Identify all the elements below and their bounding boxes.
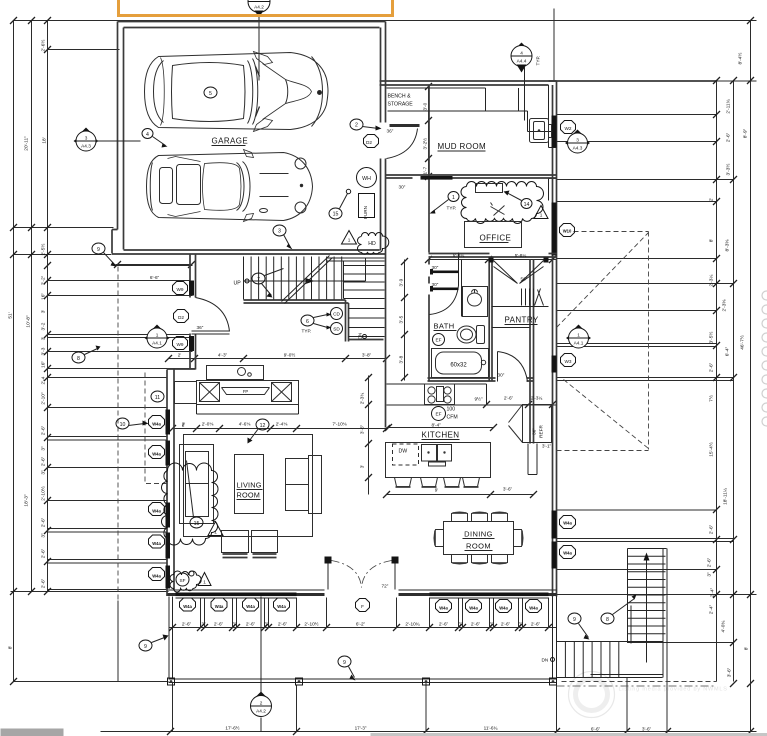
keynote circle 4 with leader bbox=[142, 129, 153, 139]
svg-text:1: 1 bbox=[214, 530, 217, 535]
west extension lines from rail to wall bbox=[14, 255, 196, 590]
svg-text:SD: SD bbox=[333, 327, 340, 332]
upper stair DN-run treads bbox=[344, 262, 385, 299]
dim rail x=428 mud room bbox=[428, 85, 430, 179]
window W10 black bar east wall bbox=[552, 203, 557, 256]
section callout diamond 4/A4.4 with TYP bbox=[511, 43, 532, 73]
svg-text:2'-10½: 2'-10½ bbox=[304, 621, 318, 627]
stair break diagonal bbox=[282, 256, 333, 304]
pocket door 30in upper bbox=[433, 271, 459, 274]
section line bottom x=260 bbox=[260, 597, 262, 732]
car 2 garage bottom (coupe plan view) bbox=[147, 150, 313, 222]
bath west wall segments with pocket door gaps bbox=[428, 260, 430, 381]
svg-text:SF: SF bbox=[180, 578, 186, 583]
keynote circle 15 living bbox=[190, 517, 203, 528]
dim line y=494 island bbox=[387, 494, 534, 496]
svg-text:2'-6”: 2'-6” bbox=[41, 578, 47, 588]
svg-text:W9: W9 bbox=[176, 342, 183, 347]
svg-text:56”: 56” bbox=[521, 277, 528, 282]
svg-text:2'-6”: 2'-6” bbox=[726, 132, 732, 142]
svg-text:2'-3¼: 2'-3¼ bbox=[709, 274, 715, 287]
upper stair DN-run top lines bbox=[327, 258, 385, 261]
svg-text:2': 2' bbox=[182, 423, 186, 428]
svg-text:A4.1: A4.1 bbox=[574, 341, 584, 346]
svg-text:TYP.: TYP. bbox=[302, 329, 312, 334]
svg-text:3'-8: 3'-8 bbox=[399, 355, 404, 363]
svg-text:3”: 3” bbox=[707, 572, 713, 577]
svg-text:A4.2: A4.2 bbox=[256, 709, 266, 714]
svg-text:DN: DN bbox=[542, 658, 549, 663]
svg-text:4: 4 bbox=[146, 132, 149, 138]
svg-text:8'-4”: 8'-4” bbox=[432, 423, 442, 428]
svg-text:51': 51' bbox=[8, 312, 14, 318]
keynote circle 9 upper-left with leader bbox=[92, 243, 105, 254]
svg-text:3”: 3” bbox=[489, 622, 494, 627]
svg-text:2'-6”: 2'-6” bbox=[709, 362, 715, 372]
svg-text:2'-10½: 2'-10½ bbox=[40, 486, 47, 501]
east stair treads vertical run bbox=[628, 556, 666, 633]
svg-text:Listing media provided by NWML: Listing media provided by NWMLS bbox=[619, 687, 728, 693]
water heater WH circle bbox=[357, 168, 377, 188]
bath hall door arc bbox=[430, 253, 459, 315]
svg-text:FP: FP bbox=[243, 389, 249, 394]
svg-text:12: 12 bbox=[260, 423, 266, 429]
dim line y=428 living north bbox=[173, 428, 387, 430]
svg-text:2'-6”: 2'-6” bbox=[707, 557, 713, 567]
svg-text:1: 1 bbox=[203, 580, 206, 585]
west wall jog at y=368 bbox=[167, 368, 196, 370]
svg-text:15: 15 bbox=[333, 212, 339, 218]
svg-text:36”: 36” bbox=[532, 428, 537, 435]
svg-text:UP: UP bbox=[234, 281, 242, 287]
svg-text:EF: EF bbox=[436, 338, 442, 343]
svg-text:2: 2 bbox=[260, 701, 263, 706]
coffee table bbox=[235, 455, 264, 514]
svg-text:W4a: W4a bbox=[152, 509, 161, 514]
svg-text:W10: W10 bbox=[563, 229, 572, 234]
french door leaves and swing arcs bbox=[328, 564, 395, 590]
keynote circle 6 TYP with CD SD bbox=[301, 315, 314, 326]
svg-text:36”: 36” bbox=[387, 129, 394, 134]
svg-text:3': 3' bbox=[360, 465, 365, 469]
svg-text:GARAGE: GARAGE bbox=[212, 137, 249, 146]
svg-text:7½: 7½ bbox=[708, 395, 715, 402]
office revision cloud bbox=[461, 182, 544, 224]
garage walls bbox=[112, 22, 386, 428]
keynote circle 3 garage with leader arrow bbox=[273, 225, 286, 236]
svg-text:9: 9 bbox=[144, 644, 147, 650]
keynote circle 9 deck with leader bbox=[338, 656, 351, 667]
svg-text:1'-7: 1'-7 bbox=[423, 166, 428, 174]
stair risers main up-run bbox=[244, 257, 342, 300]
svg-text:2'-11¾: 2'-11¾ bbox=[726, 98, 732, 113]
svg-text:9: 9 bbox=[97, 247, 100, 253]
HD cloud garage bbox=[358, 233, 389, 255]
pantry coat rod and hangers bbox=[492, 289, 549, 307]
svg-text:A4.3: A4.3 bbox=[81, 144, 91, 149]
svg-text:DN: DN bbox=[358, 333, 363, 340]
stair handrail line with UP arrow bbox=[244, 259, 366, 282]
svg-text:60x32: 60x32 bbox=[450, 363, 467, 369]
svg-text:W4a: W4a bbox=[563, 551, 572, 556]
svg-text:46'-7½: 46'-7½ bbox=[739, 335, 746, 350]
office south wall / bath north wall bbox=[429, 254, 557, 258]
dash-dot deck line bottom right bbox=[557, 685, 717, 687]
svg-text:3'-8”: 3'-8” bbox=[362, 353, 372, 358]
svg-text:BENCH &: BENCH & bbox=[388, 94, 412, 100]
right edge watermark circles bbox=[762, 291, 767, 426]
svg-text:5'-8¼: 5'-8¼ bbox=[515, 253, 527, 258]
svg-text:10'-8”: 10'-8” bbox=[26, 315, 32, 328]
kitchen EF circle 100 CFM bbox=[432, 407, 446, 421]
svg-text:PANTRY: PANTRY bbox=[505, 316, 539, 325]
svg-text:2'-2”: 2'-2” bbox=[41, 275, 47, 285]
dining chair left bbox=[434, 530, 444, 547]
window hexagons W4a east bbox=[560, 516, 576, 529]
svg-text:2'-6”: 2'-6” bbox=[439, 622, 449, 627]
top dimension line y=20 bbox=[14, 20, 757, 22]
A4.4 leader line down bbox=[524, 67, 526, 121]
bottom gray bars bbox=[1, 729, 64, 736]
svg-text:3”: 3” bbox=[264, 622, 269, 627]
svg-text:W9: W9 bbox=[176, 287, 183, 292]
deck east edge under house bbox=[553, 597, 557, 679]
svg-text:STORAGE: STORAGE bbox=[388, 102, 414, 108]
svg-text:ROOM: ROOM bbox=[237, 491, 261, 500]
svg-text:LIVING: LIVING bbox=[237, 481, 262, 490]
svg-text:3'-3½: 3'-3½ bbox=[725, 164, 732, 176]
window W2 black bar east wall bbox=[552, 116, 557, 148]
dim rail x=368 kitchen west bbox=[368, 376, 370, 495]
keynote circle 12 with leader bbox=[256, 419, 269, 430]
section callout diamond 1/A4.1 east bbox=[566, 325, 591, 349]
dim line y=681 bottom-left to deck bbox=[14, 681, 169, 683]
svg-text:MUD ROOM: MUD ROOM bbox=[438, 142, 487, 151]
keynote circle 10 with leader bbox=[116, 418, 129, 429]
island bar stools bbox=[395, 478, 412, 487]
svg-text:2'-6”: 2'-6” bbox=[41, 517, 47, 527]
svg-text:3'-2: 3'-2 bbox=[41, 322, 47, 330]
door hexagon D2 mud room bbox=[364, 135, 379, 148]
svg-text:2'-3⅝: 2'-3⅝ bbox=[722, 299, 728, 312]
svg-text:6'-2”: 6'-2” bbox=[356, 622, 366, 627]
east stair up arrow bbox=[646, 557, 648, 635]
broom cabinet beside refrigerator bbox=[528, 444, 537, 475]
svg-text:3”: 3” bbox=[458, 622, 463, 627]
svg-text:2': 2' bbox=[709, 198, 715, 202]
svg-text:15: 15 bbox=[194, 521, 200, 527]
svg-text:DINING: DINING bbox=[464, 530, 493, 539]
SF cloud with triangle bottom-left bbox=[170, 571, 201, 592]
svg-text:3': 3' bbox=[41, 337, 47, 341]
svg-text:ROOM: ROOM bbox=[466, 542, 491, 551]
watermark faint circle bbox=[569, 672, 615, 718]
svg-text:2': 2' bbox=[178, 353, 182, 358]
revision triangle 1 garage bbox=[342, 231, 357, 245]
svg-text:A4.4: A4.4 bbox=[517, 59, 527, 64]
west wall living room x=166-173 bbox=[167, 370, 174, 597]
svg-text:17'-6½: 17'-6½ bbox=[225, 725, 239, 731]
window hexagon W9 lower bbox=[173, 337, 188, 350]
svg-text:W4a: W4a bbox=[183, 604, 192, 609]
dimension rail left inner x=47 bbox=[47, 21, 49, 592]
svg-text:3”: 3” bbox=[232, 622, 237, 627]
svg-text:30”: 30” bbox=[432, 265, 439, 270]
area rug bbox=[184, 435, 313, 537]
svg-text:3'-3: 3'-3 bbox=[41, 347, 47, 355]
deck posts bbox=[168, 678, 175, 685]
svg-text:3”: 3” bbox=[41, 470, 47, 475]
svg-text:2'-4”: 2'-4” bbox=[710, 587, 716, 597]
svg-text:3'-6”: 3'-6” bbox=[360, 424, 365, 434]
svg-text:3'-6”: 3'-6” bbox=[727, 667, 733, 677]
mud room door from garage 36in with arc bbox=[387, 129, 418, 159]
svg-text:D2: D2 bbox=[178, 315, 184, 320]
svg-text:4'-0¾: 4'-0¾ bbox=[721, 620, 727, 633]
mud room laundry sink fixture bbox=[530, 119, 549, 143]
dim line y=404 kitchen counter bbox=[457, 404, 557, 406]
svg-text:OFFICE: OFFICE bbox=[480, 234, 512, 243]
svg-text:A4.2: A4.2 bbox=[254, 5, 264, 10]
svg-text:100: 100 bbox=[447, 407, 456, 413]
window W4a black bars east wall bbox=[552, 511, 557, 539]
svg-text:3”: 3” bbox=[41, 446, 47, 451]
svg-text:8': 8' bbox=[709, 239, 715, 243]
keynote circle 11 bbox=[151, 391, 164, 402]
dimension rail right x=733 bbox=[733, 81, 735, 682]
dining chair right bbox=[514, 530, 524, 547]
toilet bbox=[457, 326, 476, 343]
svg-text:W4a: W4a bbox=[152, 452, 161, 457]
keynote circle 9 at living SW with leader bbox=[139, 640, 152, 651]
svg-text:2'-6”: 2'-6” bbox=[531, 622, 541, 627]
mud room south wall / office north wall bbox=[386, 175, 557, 178]
svg-text:A4.1: A4.1 bbox=[152, 341, 162, 346]
svg-text:W4a: W4a bbox=[469, 606, 478, 611]
svg-text:2: 2 bbox=[355, 123, 358, 129]
svg-text:F: F bbox=[361, 604, 364, 609]
svg-text:2'-6”: 2'-6” bbox=[41, 548, 47, 558]
svg-text:2'-4: 2'-4 bbox=[41, 376, 47, 384]
svg-text:W4a: W4a bbox=[277, 604, 286, 609]
svg-text:W4a: W4a bbox=[152, 574, 161, 579]
svg-text:3': 3' bbox=[41, 310, 47, 314]
svg-text:EF: EF bbox=[436, 412, 442, 417]
svg-text:HD: HD bbox=[368, 241, 376, 247]
keynote circle 7 stairs with leaders bbox=[252, 273, 265, 284]
svg-text:W4a: W4a bbox=[529, 606, 538, 611]
svg-text:2'-4⅛: 2'-4⅛ bbox=[276, 422, 288, 427]
svg-text:17'-3”: 17'-3” bbox=[355, 726, 367, 731]
east wall door jambs (mud room exterior door) bbox=[549, 85, 557, 201]
svg-text:2'-6”: 2'-6” bbox=[182, 622, 192, 627]
south window units (black heads) living + dining bbox=[176, 593, 203, 597]
svg-text:CFM: CFM bbox=[447, 415, 458, 421]
pocket door 30in lower bbox=[433, 288, 459, 291]
kitchen counter edge lines bbox=[387, 384, 487, 405]
dim line y=427 kitchen bbox=[387, 427, 494, 429]
svg-text:1: 1 bbox=[348, 238, 351, 243]
svg-text:3”: 3” bbox=[41, 533, 47, 538]
svg-text:9: 9 bbox=[573, 617, 576, 623]
pantry south wall with door gap bbox=[492, 378, 534, 381]
island dishwasher DW dashed bbox=[393, 444, 419, 465]
svg-text:8'-3⅝: 8'-3⅝ bbox=[725, 239, 731, 252]
svg-text:16”: 16” bbox=[41, 293, 47, 300]
window hexagon W10 east bbox=[560, 224, 575, 237]
dining chairs bottom row bbox=[452, 555, 468, 565]
svg-text:3'-0: 3'-0 bbox=[423, 102, 428, 110]
window hexagon W3 east bbox=[561, 354, 576, 367]
dim line y=227 left bbox=[14, 227, 114, 229]
island double sink bbox=[422, 445, 437, 462]
svg-text:W4a: W4a bbox=[152, 541, 161, 546]
svg-text:3”: 3” bbox=[518, 622, 523, 627]
svg-text:2'-10”: 2'-10” bbox=[41, 392, 47, 405]
svg-text:8: 8 bbox=[606, 617, 609, 623]
leader from A4.3 to garage bbox=[96, 140, 141, 142]
svg-text:6'-6”: 6'-6” bbox=[150, 275, 160, 280]
svg-text:W2: W2 bbox=[564, 126, 571, 131]
svg-text:D2: D2 bbox=[366, 140, 372, 145]
svg-text:18': 18' bbox=[42, 137, 48, 143]
svg-text:6'-4”: 6'-4” bbox=[725, 346, 731, 356]
svg-text:W4a: W4a bbox=[215, 604, 224, 609]
deck edge south double line bbox=[169, 679, 557, 683]
svg-text:3: 3 bbox=[576, 138, 579, 143]
svg-text:2'-0⅛: 2'-0⅛ bbox=[202, 422, 214, 427]
svg-text:1: 1 bbox=[540, 213, 543, 218]
pantry east wall x=529-533 bbox=[530, 260, 534, 444]
bottom stair treads horizontal run bbox=[565, 642, 618, 678]
svg-text:3: 3 bbox=[85, 136, 88, 141]
svg-text:A4.3: A4.3 bbox=[573, 146, 583, 151]
window hexagons W4a south living wall bbox=[180, 598, 196, 611]
ottoman chairs south pair bbox=[222, 531, 249, 553]
svg-text:30”: 30” bbox=[432, 282, 439, 287]
south dim line y=627 bbox=[169, 627, 557, 629]
west wall W4a window black bars bbox=[166, 410, 171, 435]
svg-text:2'-6½: 2'-6½ bbox=[40, 40, 47, 52]
revision triangle 1 living bbox=[208, 522, 223, 536]
section callout circle A4.2 top (cut off) bbox=[248, 0, 270, 18]
revision triangle 1 office bbox=[534, 206, 548, 219]
window hexagon W9 upper bbox=[173, 282, 188, 295]
dim line y=264 porch west bbox=[116, 264, 193, 266]
pantry double doors 56in bbox=[489, 258, 494, 263]
svg-text:7'-10⅛: 7'-10⅛ bbox=[332, 422, 346, 427]
dim line y=591 bottom-left bbox=[11, 591, 169, 593]
svg-text:W4a: W4a bbox=[499, 606, 508, 611]
bath-vanity partition x=461 bbox=[461, 260, 463, 317]
cooktop range bbox=[425, 384, 455, 405]
office cloud contents (plan sketch) bbox=[476, 184, 503, 193]
svg-text:2'-6”: 2'-6” bbox=[278, 622, 288, 627]
svg-text:2'-10¾: 2'-10¾ bbox=[405, 622, 419, 627]
dimension rail right x=716 bbox=[716, 81, 718, 682]
svg-text:2'-3¼: 2'-3¼ bbox=[531, 396, 543, 401]
svg-text:3: 3 bbox=[278, 229, 281, 235]
east wall top extension thick bbox=[549, 80, 717, 82]
bath south wall bbox=[428, 378, 492, 381]
kitchen island bbox=[386, 443, 491, 478]
section callout diamond 3/A4.3 west garage bbox=[74, 128, 99, 152]
svg-text:9': 9' bbox=[435, 488, 439, 493]
svg-text:W4a: W4a bbox=[246, 604, 255, 609]
section line top x=258 bbox=[258, 13, 260, 81]
svg-text:8'-9”: 8'-9” bbox=[743, 128, 749, 138]
svg-text:15'-4½: 15'-4½ bbox=[708, 442, 715, 457]
svg-text:30”: 30” bbox=[498, 373, 505, 378]
svg-text:8': 8' bbox=[8, 646, 14, 650]
bench storage millwork lines bbox=[387, 88, 553, 132]
dining table bbox=[444, 522, 514, 555]
svg-text:11: 11 bbox=[155, 395, 160, 401]
svg-text:W3: W3 bbox=[564, 359, 571, 364]
svg-text:8': 8' bbox=[744, 647, 750, 651]
svg-text:3'-6”: 3'-6” bbox=[503, 487, 513, 492]
svg-text:2'-6”: 2'-6” bbox=[41, 456, 47, 466]
bath EF fan circle bbox=[433, 334, 445, 346]
svg-text:REFR: REFR bbox=[539, 425, 544, 438]
svg-text:2'-6”: 2'-6” bbox=[246, 622, 256, 627]
svg-text:8: 8 bbox=[77, 356, 80, 362]
north wall right portion (mud room) bbox=[380, 81, 557, 85]
svg-text:2'-3¾: 2'-3¾ bbox=[360, 393, 365, 405]
svg-text:6: 6 bbox=[306, 319, 309, 325]
svg-text:BATH: BATH bbox=[434, 322, 455, 331]
svg-text:1: 1 bbox=[577, 333, 580, 338]
svg-text:10: 10 bbox=[120, 422, 126, 428]
dashed roof outline east (rect + diagonals) bbox=[557, 232, 649, 451]
keynote circle 5 car1 bbox=[204, 87, 217, 98]
buffet cabinet above fireplace bbox=[207, 366, 264, 380]
revision cloud over sofa bbox=[162, 463, 219, 545]
lower stair DN treads bbox=[349, 309, 385, 337]
keynote circle 1 TYP office bbox=[448, 192, 459, 202]
svg-text:2'-6”: 2'-6” bbox=[41, 425, 47, 435]
dashed setback line x=117 bbox=[117, 267, 119, 601]
svg-text:4'-3”: 4'-3” bbox=[218, 353, 228, 358]
section callout diamond 2/A4.2 bottom bbox=[251, 692, 272, 717]
dimension rail right outer x=750 bbox=[750, 21, 752, 682]
east stair shaft walls bbox=[557, 549, 668, 678]
section callout diamond 3/A4.3 east bbox=[565, 130, 590, 154]
armchair east bbox=[286, 459, 309, 511]
svg-text:3'-5½: 3'-5½ bbox=[708, 332, 715, 344]
svg-text:FURN: FURN bbox=[363, 206, 368, 219]
top extension line x=553 NE bbox=[553, 9, 555, 81]
keynote circle 15 garage with leader bbox=[329, 208, 342, 219]
svg-text:4'-6⅛: 4'-6⅛ bbox=[239, 422, 251, 427]
fireplace assembly with X boxes and FP mantel bbox=[175, 382, 197, 404]
svg-text:3”: 3” bbox=[201, 622, 206, 627]
svg-text:2'-6”: 2'-6” bbox=[504, 396, 514, 401]
dimension rail left middle x=31 bbox=[31, 21, 33, 592]
svg-text:6'-6”: 6'-6” bbox=[591, 727, 601, 732]
svg-text:3'-2½: 3'-2½ bbox=[422, 138, 428, 150]
svg-text:KITCHEN: KITCHEN bbox=[422, 431, 460, 440]
south wall mullions between windows bbox=[203, 593, 207, 597]
furnace FURN box bbox=[359, 194, 375, 218]
svg-text:TYP.: TYP. bbox=[536, 56, 541, 66]
svg-text:2'-6”: 2'-6” bbox=[471, 622, 481, 627]
car 1 garage top (SUV plan view) bbox=[145, 52, 329, 132]
bottom dimension line y=731 bbox=[101, 731, 757, 733]
keynote circle 8 with leader bbox=[72, 352, 85, 363]
south wall thin line bbox=[167, 589, 557, 591]
svg-text:11'-6¾: 11'-6¾ bbox=[484, 726, 498, 731]
